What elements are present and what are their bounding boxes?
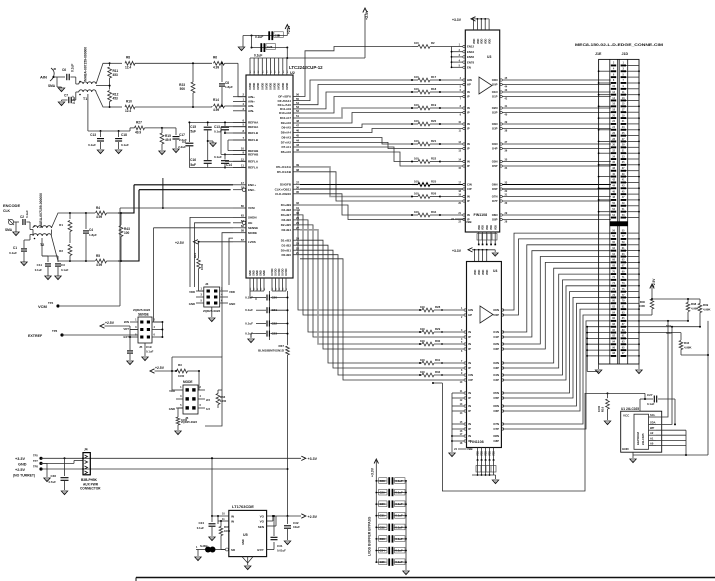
resistor R5 4.99: [86, 260, 95, 262]
wire U4 output to connector row 6: [503, 268, 611, 363]
transformer T2: [33, 226, 51, 228]
svg-text:D0+/B1: D0+/B1: [281, 248, 292, 252]
svg-text:0.1uF: 0.1uF: [395, 502, 403, 506]
svg-text:O2P: O2P: [493, 347, 499, 351]
wire EEPROM SDA up: [656, 327, 672, 425]
wire U3 ch2 inputs: [440, 107, 463, 109]
svg-text:CLK-/OB10: CLK-/OB10: [275, 192, 291, 196]
svg-text:J5: J5: [139, 345, 143, 349]
pin 24 D1+/B3: [293, 239, 300, 241]
svg-text:R4: R4: [96, 206, 100, 210]
pin 64 OE: [242, 221, 245, 224]
wire U4 ch3 inputs: [422, 361, 434, 365]
ground REF center: [208, 140, 213, 142]
resistor R24 1000: [198, 242, 200, 258]
pin 24 VBB U3: [455, 218, 465, 220]
pin 57 LVDS: [233, 241, 246, 243]
capacitor C1 0.1uF: [30, 234, 33, 236]
resistor R22 100 termination U3 ch5: [418, 160, 430, 164]
pin 12 and 11 connector row: [611, 94, 616, 96]
wire U4 output to connector row 12: [503, 303, 611, 406]
capacitor C18 0.1uF: [118, 130, 120, 132]
svg-text:O5N: O5N: [493, 391, 499, 395]
svg-text:O3N: O3N: [492, 122, 498, 126]
svg-text:O1N: O1N: [492, 90, 498, 94]
resistor R34 100 termination U3 ch8: [418, 213, 430, 217]
svg-text:VDD: VDD: [478, 270, 481, 275]
op-amp U4 receiver triangle: [480, 306, 493, 323]
svg-text:43: 43: [296, 143, 300, 147]
wire data bus U2 to U3 row 14: [300, 194, 412, 215]
svg-text:R21: R21: [431, 139, 437, 143]
pin 38 D5-/CLKB: [293, 171, 300, 173]
capacitor C22 0.1uF: [256, 323, 266, 325]
wire U3 ch3 outputs to connector: [502, 123, 611, 125]
capacitor C36 4.7uF: [64, 457, 66, 459]
svg-text:R42: R42: [684, 341, 690, 345]
svg-text:D9-/A5: D9-/A5: [281, 126, 291, 130]
resistor R27 49.9: [129, 128, 131, 131]
svg-text:4.99K: 4.99K: [703, 308, 710, 312]
pin 24 and 23 connector row: [611, 129, 616, 131]
wire connector lower ground bus: [586, 327, 588, 372]
resistor R41 4.99K WP pullup: [639, 332, 681, 334]
svg-text:D9+/A6: D9+/A6: [281, 121, 292, 125]
wire U3 ch4 inputs: [440, 143, 463, 145]
svg-text:O5N: O5N: [492, 160, 498, 164]
svg-text:MODE: MODE: [183, 380, 193, 384]
ground R16: [604, 421, 610, 425]
header J3 2QD25-0922: [204, 287, 220, 307]
svg-text:+2.5V: +2.5V: [155, 366, 165, 370]
wire data bus U2 to U3 row 15: [300, 205, 412, 220]
svg-text:LVDS BUFFER BYPASS: LVDS BUFFER BYPASS: [368, 516, 372, 556]
pin 90 and 89 connector row: [611, 332, 616, 334]
svg-text:VDD: VDD: [490, 225, 493, 230]
pin 53 D11-/A9: [293, 108, 300, 110]
wire EEPROM WP A2 A1 A0 tie: [656, 429, 686, 431]
ground C7: [61, 100, 63, 101]
pin 2 AIN+: [233, 96, 246, 98]
pin 24 VBB U4: [458, 448, 467, 450]
resistor R18 100 termination U3 ch1: [418, 90, 430, 94]
svg-text:D3-/B6: D3-/B6: [281, 218, 291, 222]
svg-text:100: 100: [420, 370, 425, 374]
wire U3 ch4 outputs to connector: [502, 143, 611, 145]
svg-text:OVDD: OVDD: [261, 83, 264, 90]
pin 30 and 29 connector row: [611, 146, 616, 148]
svg-text:2/3: 2/3: [206, 398, 210, 402]
svg-text:+2.5V: +2.5V: [175, 241, 185, 245]
svg-text:O1P: O1P: [493, 335, 499, 339]
svg-text:FIN1108: FIN1108: [470, 440, 484, 444]
svg-text:TP5: TP5: [33, 454, 38, 458]
svg-text:4.99K: 4.99K: [691, 307, 698, 311]
pin 68 and 67 connector row: [611, 267, 616, 269]
pin 80 and 79 connector row: [611, 302, 616, 304]
wire T1 secondary top: [96, 63, 110, 84]
wire U4 output to connector row 0: [503, 233, 611, 310]
pin 44 D7+/A2: [293, 141, 300, 143]
wire U3 ch8 outputs to connector: [502, 214, 611, 216]
pin 4 and 3 connector row: [611, 70, 616, 72]
svg-text:4.7uF: 4.7uF: [48, 480, 56, 484]
wire bypass rail: [243, 35, 287, 37]
svg-text:REFLB: REFLB: [248, 138, 259, 142]
svg-text:+2.5V: +2.5V: [365, 10, 369, 20]
svg-text:D7-/A1: D7-/A1: [281, 145, 291, 149]
resistor R14 4.99: [214, 104, 225, 108]
wire T2 center tap: [41, 238, 43, 256]
svg-text:MABA-007159-000000: MABA-007159-000000: [39, 193, 43, 228]
svg-text:ENC-: ENC-: [248, 188, 255, 192]
pin 8 and 7 connector row: [611, 82, 616, 84]
capacitor C29 0.1uF: [376, 492, 386, 494]
svg-text:AIN+: AIN+: [248, 95, 255, 99]
svg-text:57: 57: [241, 238, 245, 242]
capacitor C11 0.1uF: [42, 255, 48, 257]
wire data bus U2 to U3 row 12: [300, 167, 412, 197]
svg-text:O8N: O8N: [493, 434, 499, 438]
svg-text:LVDS: LVDS: [248, 240, 256, 244]
svg-text:0.1uF: 0.1uF: [146, 350, 154, 354]
wire data bus U2 to U3 EN: [300, 47, 412, 97]
svg-text:O8P: O8P: [492, 218, 498, 222]
svg-text:GND: GND: [169, 407, 175, 411]
svg-text:IN: IN: [467, 160, 470, 164]
svg-text:EN78: EN78: [467, 60, 474, 64]
svg-text:12.4: 12.4: [125, 109, 131, 113]
svg-text:OVDD: OVDD: [253, 83, 256, 90]
pin 29 D3-/B6: [293, 219, 300, 221]
wire data bus U2 to U3 row 0: [300, 80, 412, 101]
svg-text:C14: C14: [226, 163, 232, 167]
svg-text:CIP: CIP: [467, 187, 472, 191]
wire regulator ground: [247, 557, 249, 565]
pin 11 REFLA: [233, 167, 246, 169]
svg-text:D0-/B0: D0-/B0: [281, 253, 291, 257]
svg-text:OVDD: OVDD: [249, 83, 252, 90]
svg-text:C32: C32: [380, 525, 386, 529]
svg-text:SCL: SCL: [650, 413, 656, 417]
svg-text:17: 17: [241, 181, 245, 185]
svg-text:VCM: VCM: [248, 206, 255, 210]
svg-text:24LC025: 24LC025: [641, 433, 645, 445]
svg-text:O6P: O6P: [492, 187, 498, 191]
pin 36 and 35 connector row: [611, 164, 616, 166]
svg-text:HIN: HIN: [467, 78, 472, 82]
svg-text:T1: T1: [83, 97, 87, 101]
power +3.3V arrow: [301, 456, 306, 460]
wire bypass rail 2: [252, 47, 288, 49]
svg-text:1.8pF: 1.8pF: [225, 85, 233, 89]
wire U4 ch2 inputs: [422, 342, 434, 346]
ADC top power pins: [249, 58, 251, 75]
wire regulator input: [211, 457, 213, 516]
wire U4 output to connector row 3: [503, 251, 611, 337]
wire U4 ch0 inputs: [422, 308, 434, 312]
svg-text:IN: IN: [467, 90, 470, 94]
svg-text:MEC8-150-02-L-D-EDGE_CONNE-CIM: MEC8-150-02-L-D-EDGE_CONNE-CIM: [575, 43, 663, 47]
pin 82 and 81 connector row: [611, 308, 616, 310]
svg-text:100: 100: [414, 139, 419, 143]
svg-text:R26: R26: [431, 191, 437, 195]
pin EEPROM A0: [649, 445, 657, 447]
svg-text:R37: R37: [278, 344, 284, 348]
pin 74 and 73 connector row: [611, 285, 616, 287]
svg-text:OVDD: OVDD: [257, 83, 260, 90]
wire right loop down: [707, 321, 709, 455]
ground bypass ladder: [255, 298, 257, 301]
svg-text:IP: IP: [467, 164, 470, 168]
wire ADC top power rail: [250, 57, 287, 59]
svg-text:CONNECTOR: CONNECTOR: [80, 487, 101, 491]
svg-text:0.1uF: 0.1uF: [395, 560, 403, 564]
svg-text:VDD: VDD: [485, 39, 488, 44]
wire T1 secondary bottom: [96, 92, 110, 107]
capacitor C24 0.1uF input: [211, 515, 213, 517]
svg-text:IN: IN: [467, 106, 470, 110]
svg-text:LT1763CDE: LT1763CDE: [232, 504, 254, 509]
connector key bar: [610, 221, 628, 226]
svg-text:REFHA: REFHA: [248, 125, 259, 129]
svg-text:+3.3V: +3.3V: [308, 457, 318, 461]
svg-text:IN: IN: [468, 361, 471, 365]
svg-text:+2.5V: +2.5V: [652, 278, 656, 287]
pin 70 and 69 connector row: [611, 273, 616, 275]
svg-text:C22: C22: [272, 322, 278, 326]
pin 14 and 13 connector row: [611, 100, 616, 102]
pin 2 and 1 connector row: [611, 65, 616, 67]
pin 39 D5+/CLKA: [293, 166, 300, 168]
resistor R17 100 termination U3 ch0: [418, 78, 430, 82]
svg-text:R38: R38: [691, 302, 697, 306]
svg-text:D2-/B4: D2-/B4: [281, 228, 291, 232]
capacitor C27 0.1uF: [640, 398, 653, 400]
svg-text:100: 100: [414, 191, 419, 195]
svg-text:C7: C7: [64, 94, 68, 98]
svg-text:C31: C31: [277, 544, 283, 548]
svg-text:FIN1108: FIN1108: [474, 213, 488, 217]
wire regulator output: [267, 515, 301, 517]
capacitor C34 0.1uF: [376, 550, 386, 552]
capacitor C33 0.1uF: [376, 538, 386, 540]
svg-text:32: 32: [296, 201, 300, 205]
pin 64 and 63 connector row: [611, 256, 616, 258]
wire data bus U2 to U4 row 8: [300, 255, 420, 375]
resistor R11 453: [109, 63, 111, 66]
wire U3 ch1 outputs to connector: [502, 91, 611, 93]
svg-text:SHDN: SHDN: [248, 216, 257, 220]
resistor R25 100 termination U3 ch6: [418, 183, 430, 187]
wire EEPROM bottom loop: [632, 452, 634, 455]
pin 98 and 97 connector row: [611, 355, 616, 357]
svg-text:0.1uF: 0.1uF: [197, 526, 205, 530]
wire data bus U2 to U4 row 6: [300, 245, 420, 363]
svg-text:+2.5V: +2.5V: [287, 25, 291, 34]
damping resistor row U4 bottom: [476, 466, 496, 473]
capacitor C32 0.1uF: [376, 526, 386, 528]
wire MODE down: [222, 233, 233, 357]
svg-text:31: 31: [296, 206, 300, 210]
pin 35 CLK-/OB10: [293, 193, 300, 195]
svg-text:C13: C13: [214, 125, 220, 129]
svg-text:CLK: CLK: [3, 209, 11, 213]
svg-text:D5/OFB: D5/OFB: [280, 183, 292, 187]
svg-text:SDA: SDA: [650, 420, 656, 424]
svg-text:VDD: VDD: [486, 225, 489, 230]
power +3.3V mid rail: [468, 248, 473, 252]
svg-text:D4+/B9: D4+/B9: [281, 203, 292, 207]
power +2.5V MODE: [150, 369, 155, 373]
svg-text:62: 62: [241, 224, 245, 228]
wire data bus U2 to U4 row 7: [300, 250, 420, 368]
svg-text:R27: R27: [136, 121, 142, 125]
pin 76 and 75 connector row: [611, 291, 616, 293]
svg-text:C33: C33: [380, 537, 386, 541]
pin 1 AIN+: [233, 100, 246, 102]
svg-text:R30: R30: [435, 339, 441, 343]
svg-text:OVDD: OVDD: [286, 83, 289, 90]
ground mid rail: [494, 250, 496, 252]
svg-text:C6: C6: [62, 68, 66, 72]
svg-text:38: 38: [296, 168, 300, 172]
resistor R35 1000 shdn: [217, 521, 219, 524]
op-amp U3 FIN1108 LVDS buffer: [465, 30, 499, 232]
svg-text:60: 60: [241, 204, 245, 208]
svg-text:EN12: EN12: [467, 45, 474, 49]
svg-text:VDD: VDD: [473, 39, 476, 44]
svg-text:C1: C1: [13, 246, 17, 250]
pin 63 SHDN: [233, 216, 246, 218]
svg-text:VDD: VDD: [486, 270, 489, 275]
wire bias tap: [87, 94, 89, 131]
wire data bus U2 to U3 row 9: [300, 142, 412, 148]
svg-text:R25: R25: [431, 179, 437, 183]
pin 27 D2-/B4: [293, 229, 300, 231]
svg-text:O0N: O0N: [493, 308, 499, 312]
svg-text:J1E: J1E: [595, 52, 602, 56]
pin 56 OF+/OFA: [293, 96, 300, 98]
wire SHDN to J3: [190, 217, 233, 287]
svg-text:J3: J3: [205, 282, 209, 286]
svg-text:GND: GND: [255, 270, 259, 276]
svg-text:VDD: VDD: [229, 290, 235, 294]
wire U3 ch5 inputs: [440, 161, 463, 163]
wire data bus U2 to U4 row 1: [300, 215, 420, 315]
svg-text:0.1uF: 0.1uF: [71, 64, 75, 72]
svg-text:D5-/CLKB: D5-/CLKB: [277, 170, 292, 174]
svg-text:2.2uF: 2.2uF: [178, 145, 186, 149]
transformer T1: [79, 82, 96, 84]
ground U4 unused inputs: [449, 453, 455, 457]
wire U3 ch7 outputs to connector: [502, 196, 611, 198]
svg-text:U5: U5: [243, 533, 248, 537]
ground EEPROM: [632, 455, 634, 458]
svg-text:CLK+/OB11: CLK+/OB11: [275, 187, 292, 191]
svg-text:VDD: VDD: [189, 290, 195, 294]
capacitor C17 2.2uF left rail: [188, 122, 190, 142]
svg-text:VO: VO: [260, 515, 265, 519]
svg-text:VDD: VDD: [474, 270, 477, 275]
power +2.5V top: [287, 57, 365, 59]
svg-text:0.1uF: 0.1uF: [245, 308, 253, 312]
wire U3 ch7 inputs: [440, 196, 463, 198]
wire REF rail top: [189, 121, 246, 123]
power +3.3V U3: [471, 17, 476, 21]
svg-text:OVDD: OVDD: [265, 83, 268, 90]
svg-text:C34: C34: [380, 549, 386, 553]
svg-text:WP: WP: [650, 426, 654, 430]
svg-text:500: 500: [180, 87, 186, 91]
svg-text:C11: C11: [37, 263, 43, 267]
svg-text:(NO TURRET): (NO TURRET): [13, 474, 35, 478]
wire U4 ch1 inputs: [422, 330, 434, 334]
svg-text:EN: EN: [467, 66, 471, 70]
svg-text:U4: U4: [493, 269, 497, 273]
pin 60 VCM: [233, 207, 246, 209]
svg-text:C35: C35: [380, 560, 386, 564]
svg-text:EXTREF: EXTREF: [28, 334, 43, 338]
svg-text:100: 100: [414, 75, 419, 79]
svg-text:0.1uF: 0.1uF: [395, 549, 403, 553]
wire +3.3V rail: [41, 457, 301, 459]
svg-text:HP: HP: [468, 313, 472, 317]
svg-text:O4P: O4P: [492, 147, 498, 151]
wire OE to J3: [195, 223, 231, 287]
wire U4 ch8 inputs: [452, 435, 464, 437]
svg-text:100: 100: [420, 339, 425, 343]
resistor R20 100 termination U3 ch3: [418, 122, 430, 126]
svg-text:OVDD: OVDD: [278, 83, 281, 90]
ground MODE: [175, 431, 181, 435]
wire data bus U2 to U3 row 5: [300, 113, 412, 124]
svg-text:VDD: VDD: [478, 225, 481, 230]
wire data bus U2 to U3 row 3: [300, 97, 412, 114]
svg-text:C25: C25: [275, 33, 281, 37]
svg-text:4.99: 4.99: [213, 66, 219, 70]
svg-text:O6N: O6N: [492, 183, 498, 187]
svg-text:18: 18: [241, 186, 245, 190]
wire ENC+ to ADC pin 17: [118, 185, 134, 213]
svg-text:VDD: VDD: [477, 39, 480, 44]
wire +2.5V rail down to regulator: [287, 355, 289, 516]
svg-text:R19: R19: [431, 103, 437, 107]
svg-text:C15: C15: [190, 125, 196, 129]
svg-text:IN: IN: [467, 142, 470, 146]
wire U3 ch6 inputs: [440, 184, 463, 186]
ground SENSE: [144, 343, 146, 356]
wire U3 ch1 inputs: [440, 91, 463, 93]
ADC bottom ground pins: [249, 278, 251, 291]
wire U4 output to connector row 1: [503, 239, 611, 315]
wire sheet border: [136, 577, 715, 579]
pin 84 and 83 connector row: [611, 314, 616, 316]
wire LVDS pulldown: [229, 238, 233, 285]
svg-text:453: 453: [113, 73, 119, 77]
pin 37 D5/OFB: [293, 183, 300, 185]
svg-text:GND: GND: [241, 539, 245, 545]
pin 5 REFHA: [233, 126, 246, 128]
svg-text:VCM: VCM: [38, 304, 48, 309]
svg-text:O3P: O3P: [492, 127, 498, 131]
svg-text:O3N: O3N: [493, 361, 499, 365]
svg-text:100: 100: [414, 87, 419, 91]
svg-text:D1-/B2: D1-/B2: [281, 243, 291, 247]
svg-text:58: 58: [241, 229, 245, 233]
pin 26 and 25 connector row: [611, 135, 616, 137]
pin 34 and 33 connector row: [611, 158, 616, 160]
